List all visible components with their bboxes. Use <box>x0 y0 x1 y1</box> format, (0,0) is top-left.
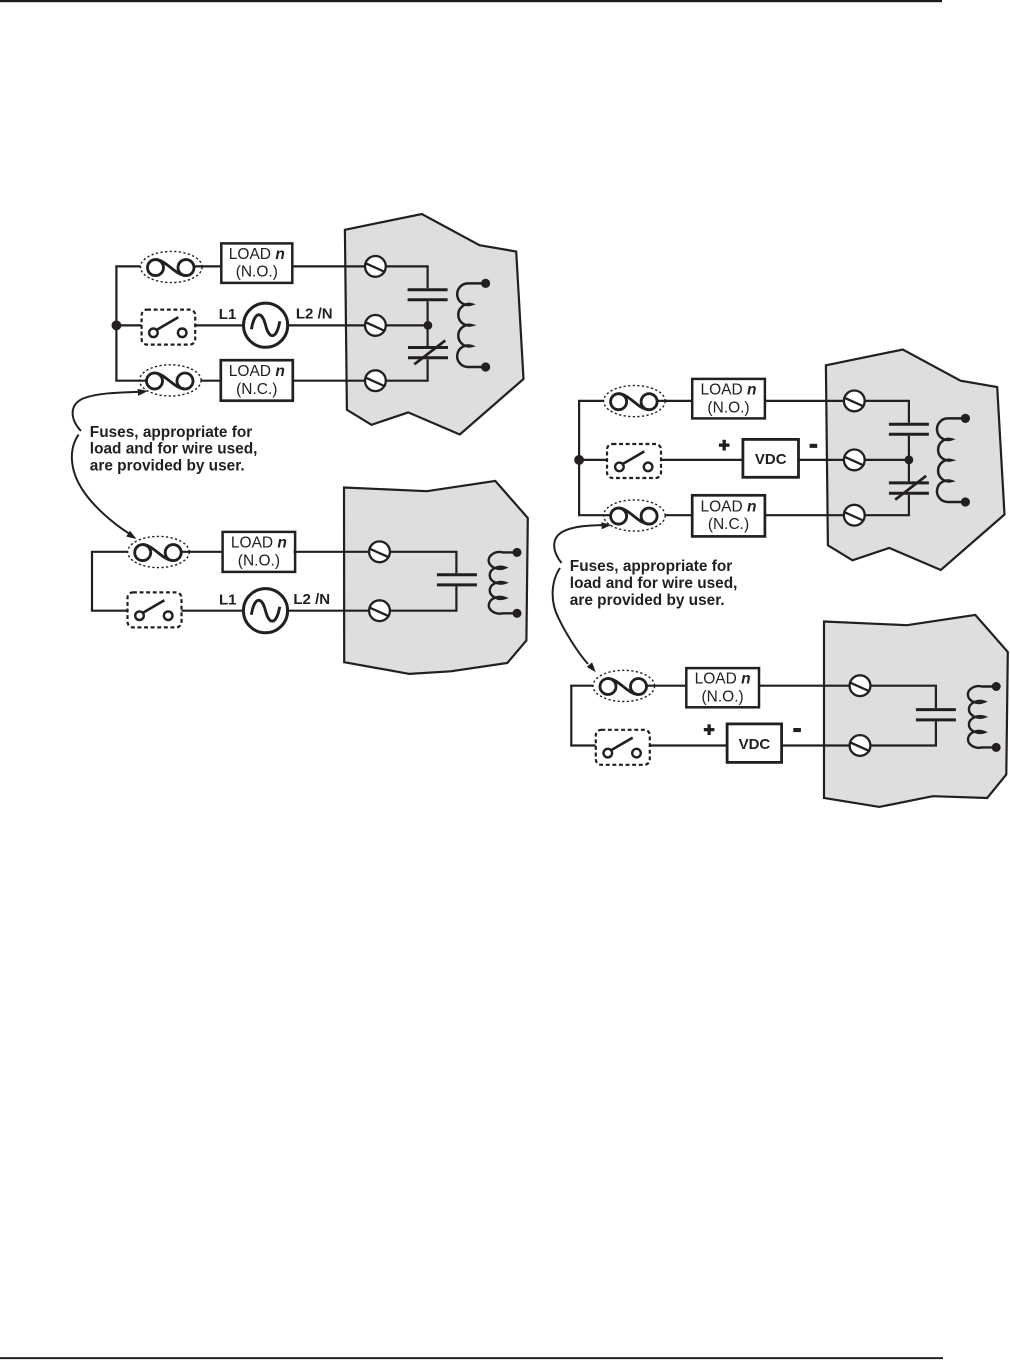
snubber capacitor (upper) diagram 1 <box>408 290 448 300</box>
terminal 1 (screw terminal) diagram 2 <box>369 541 390 562</box>
load box LOAD n (N.O.) diagram 4 <box>686 668 759 707</box>
wire: capacitor to terminal 2 branch diagram 2 <box>388 586 456 610</box>
wire: VDC to terminal 2 diagram 4 <box>782 744 851 746</box>
terminal 1 (screw terminal) diagram 4 <box>850 675 871 696</box>
wire: fuse to bus diagram 3 <box>578 514 611 516</box>
wire: suppressor to terminal 3 branch diagram 3 <box>863 495 909 516</box>
wire: load box to terminal 1 diagram 2 <box>294 551 371 553</box>
svg-text:load and for wire used,: load and for wire used, <box>90 441 258 458</box>
wire: switch to AC source diagram 2 <box>182 610 244 612</box>
svg-text:VDC: VDC <box>755 451 787 468</box>
wire: terminal 1 to snubber capacitor branch diagram 3 <box>863 401 909 423</box>
junction node on left bus diagram 3 <box>574 455 584 465</box>
svg-text:Fuses, appropriate for: Fuses, appropriate for <box>90 424 253 441</box>
fuse (N.O. load fuse) diagram 3 <box>604 386 666 417</box>
load box LOAD n (N.C.) diagram 1 <box>221 360 293 401</box>
wire: terminal 1 to capacitor branch diagram 4 <box>869 686 936 708</box>
svg-text:L1: L1 <box>219 306 237 323</box>
wire: load box to terminal 1 diagram 1 <box>292 265 366 267</box>
svg-text:(N.C.): (N.C.) <box>236 381 277 398</box>
wire: left bus vertical diagram 2 <box>91 552 93 611</box>
wire: fuse to load box diagram 2 <box>181 551 222 553</box>
callout arrow from note to fuse F2 diagram 1 <box>73 389 148 431</box>
svg-text:L2 /N: L2 /N <box>296 305 333 322</box>
svg-text:L2 /N: L2 /N <box>293 591 330 608</box>
junction node between capacitors diagram 1 <box>424 321 433 330</box>
switch (user switch) diagram 3 <box>607 444 661 478</box>
wire: load box N.C. to fuse F2 diagram 1 <box>193 380 221 382</box>
wire: terminal 3 to load box N.C. diagram 1 <box>292 380 366 382</box>
svg-text:Fuses, appropriate for: Fuses, appropriate for <box>570 558 733 575</box>
wire: bus to switch diagram 4 <box>570 744 596 746</box>
snubber capacitor diagram 4 <box>916 710 956 720</box>
terminal 3 (screw terminal) diagram 3 <box>844 505 865 526</box>
wire: capacitor to center node diagram 1 <box>427 301 429 325</box>
callout arrow from note to fuse diagram 2 <box>72 435 137 539</box>
wire: center node to suppressor diagram 1 <box>427 325 429 346</box>
switch S1 (user switch) diagram 1 <box>142 310 196 345</box>
svg-text:L1: L1 <box>219 592 237 609</box>
load box LOAD n (N.O.) diagram 1 <box>221 243 292 283</box>
coil top pin dot diagram 3 <box>961 414 970 423</box>
relay coil diagram 1 <box>457 283 485 367</box>
wire: bus to switch diagram 2 <box>91 610 128 612</box>
transient suppressor (crossed capacitor) diagram 1 <box>408 340 448 364</box>
wire: fuse F1 to load box diagram 1 <box>194 265 221 267</box>
wire: AC source to terminal 2 diagram 1 <box>288 324 366 326</box>
load box LOAD n (N.O.) diagram 2 <box>223 532 296 572</box>
wire: terminal 3 to load box N.C. diagram 3 <box>765 514 845 516</box>
svg-text:LOAD n: LOAD n <box>701 498 757 515</box>
wire: terminal 1 to snubber capacitor branch diagram 1 <box>384 266 428 288</box>
terminal 3 (screw terminal) diagram 1 <box>365 370 386 391</box>
junction node on left bus diagram 1 <box>112 321 122 331</box>
fuse F2 (N.C. load fuse) diagram 1 <box>140 365 202 396</box>
wire: center node to suppressor diagram 3 <box>908 460 910 482</box>
fuse F1 (N.O. load fuse) diagram 1 <box>141 251 203 282</box>
snubber capacitor (upper) diagram 3 <box>889 424 929 434</box>
AC source V1 diagram 1 <box>244 303 288 347</box>
svg-text:LOAD n: LOAD n <box>229 246 285 263</box>
wire: terminal 2 to center junction diagram 3 <box>863 459 909 461</box>
svg-text:(N.C.): (N.C.) <box>708 516 749 533</box>
VDC source box diagram 3 <box>743 439 799 477</box>
wire: bus to fuse F1 diagram 1 <box>115 265 148 267</box>
svg-text:are provided by user.: are provided by user. <box>570 592 725 609</box>
wire: capacitor to terminal 2 branch diagram 4 <box>869 721 936 745</box>
relay coil diagram 4 <box>968 686 996 748</box>
coil bottom pin dot diagram 3 <box>961 497 970 506</box>
coil bottom pin dot diagram 2 <box>513 609 522 618</box>
transient suppressor (crossed capacitor) diagram 3 <box>889 476 929 500</box>
wire: switch to VDC source diagram 3 <box>661 459 743 461</box>
fuse (load fuse) diagram 4 <box>593 670 655 701</box>
svg-text:VDC: VDC <box>739 736 771 753</box>
relay module body (gray blob) diagram 2 <box>344 481 528 674</box>
label - (negative) diagram 4 <box>793 728 801 732</box>
wire: left bus vertical diagram 1 <box>115 266 117 380</box>
junction node between capacitors diagram 3 <box>905 456 914 465</box>
load box LOAD n (N.C.) diagram 3 <box>692 495 765 536</box>
callout arrow from note to N.C. fuse diagram 3 <box>554 522 611 563</box>
wire: terminal 1 to capacitor branch diagram 2 <box>388 552 456 574</box>
wire: bus to fuse diagram 2 <box>91 551 135 553</box>
switch (user switch) diagram 2 <box>128 592 182 627</box>
terminal 1 (screw terminal) diagram 3 <box>844 391 865 412</box>
wire: bus to switch diagram 3 <box>578 459 607 461</box>
svg-text:load and for wire used,: load and for wire used, <box>570 575 738 592</box>
wire: bus to fuse diagram 3 <box>578 400 611 402</box>
label + (positive) diagram 3 <box>719 440 730 451</box>
load box LOAD n (N.O.) diagram 3 <box>692 379 765 419</box>
relay coil diagram 3 <box>937 418 965 502</box>
terminal 2 (screw terminal) diagram 4 <box>850 735 871 756</box>
svg-text:LOAD n: LOAD n <box>695 671 751 688</box>
wire: AC source to terminal 2 diagram 2 <box>288 610 371 612</box>
wire: bus to switch diagram 1 <box>115 324 141 326</box>
snubber capacitor diagram 2 <box>437 575 477 585</box>
svg-text:LOAD n: LOAD n <box>231 535 287 552</box>
VDC source box diagram 4 <box>727 724 782 763</box>
svg-text:are provided by user.: are provided by user. <box>90 457 245 474</box>
svg-text:(N.O.): (N.O.) <box>702 689 744 706</box>
terminal 1 (screw terminal) diagram 1 <box>365 256 386 277</box>
terminal 2 (screw terminal) diagram 2 <box>369 600 390 621</box>
svg-text:(N.O.): (N.O.) <box>238 552 280 569</box>
wire: left bus vertical diagram 4 <box>570 686 572 746</box>
wire: VDC to terminal 2 diagram 3 <box>799 459 845 461</box>
svg-text:(N.O.): (N.O.) <box>707 399 749 416</box>
wire: fuse to load box diagram 4 <box>647 685 687 687</box>
relay module body (gray blob) diagram 4 <box>824 615 1008 807</box>
coil top pin dot diagram 1 <box>481 279 490 288</box>
terminal 2 (screw terminal) diagram 3 <box>844 450 865 471</box>
label - (negative) diagram 3 <box>810 444 818 448</box>
bottom rule <box>0 1357 943 1359</box>
wire: load box N.C. to fuse diagram 3 <box>657 514 692 516</box>
wire: load box to terminal 1 diagram 3 <box>765 400 845 402</box>
wire: switch to VDC source diagram 4 <box>650 744 727 746</box>
callout arrow from note to fuse diagram 4 <box>553 568 596 672</box>
label + (positive) diagram 4 <box>704 724 715 735</box>
svg-text:(N.O.): (N.O.) <box>236 264 278 281</box>
coil top pin dot diagram 4 <box>992 682 1001 691</box>
fuse (load fuse) diagram 2 <box>128 536 190 567</box>
coil bottom pin dot diagram 4 <box>992 743 1001 752</box>
relay coil diagram 2 <box>489 552 517 614</box>
wire: fuse to load box diagram 3 <box>657 400 692 402</box>
wire: terminal 2 to center junction diagram 1 <box>384 324 428 326</box>
wire: capacitor to center node diagram 3 <box>908 436 910 460</box>
wire: load box to terminal 1 diagram 4 <box>759 685 851 687</box>
terminal 2 (screw terminal) diagram 1 <box>365 315 386 336</box>
relay module body (gray blob) diagram 3 <box>826 350 1005 571</box>
AC source diagram 2 <box>243 589 287 633</box>
wire: left bus vertical diagram 3 <box>578 401 580 515</box>
top rule <box>0 0 942 2</box>
relay module body (gray blob) diagram 1 <box>345 214 524 435</box>
coil bottom pin dot diagram 1 <box>481 362 490 371</box>
wire: switch to AC source diagram 1 <box>195 324 243 326</box>
wire: fuse F2 to bus diagram 1 <box>115 380 147 382</box>
coil top pin dot diagram 2 <box>513 548 522 557</box>
svg-text:LOAD n: LOAD n <box>229 363 285 380</box>
svg-text:LOAD n: LOAD n <box>701 382 757 399</box>
wire: bus to fuse diagram 4 <box>570 685 600 687</box>
wire: suppressor to terminal 3 branch diagram 1 <box>384 359 428 380</box>
fuse (N.C. load fuse) diagram 3 <box>604 500 666 531</box>
switch (user switch) diagram 4 <box>596 730 650 765</box>
